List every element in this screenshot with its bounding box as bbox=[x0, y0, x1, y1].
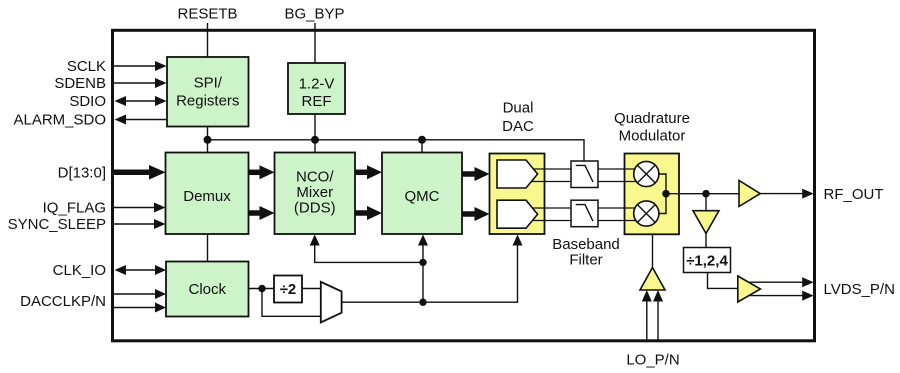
block Demux bbox=[166, 153, 249, 235]
block div2 bbox=[274, 276, 302, 303]
wire SDENB input bbox=[114, 82, 157, 84]
svg-text:DAC: DAC bbox=[502, 118, 534, 135]
block Dual DAC bbox=[490, 154, 545, 235]
svg-text:CLK_IO: CLK_IO bbox=[53, 262, 106, 279]
block Quadrature Modulator bbox=[625, 154, 680, 235]
svg-text:SDIO: SDIO bbox=[69, 93, 106, 110]
svg-text:Registers: Registers bbox=[176, 93, 239, 110]
amp divider input (down triangle) bbox=[693, 211, 719, 234]
wire DACCLKP input bbox=[114, 293, 157, 295]
wire LVDS P line bbox=[742, 281, 803, 283]
wire clock branch to NCO bbox=[315, 245, 423, 262]
svg-text:÷2: ÷2 bbox=[280, 281, 297, 298]
wire CLK_IO bidirectional bbox=[124, 269, 157, 271]
block SPI/Registers bbox=[167, 57, 249, 127]
wire NCO to QMC lower thick arrow bbox=[355, 210, 370, 216]
chip boundary bbox=[113, 30, 815, 341]
wire branch down to divider bbox=[705, 194, 707, 211]
wire RF output line bbox=[666, 193, 739, 195]
mux clock select bbox=[321, 282, 342, 323]
svg-text:Mixer: Mixer bbox=[296, 184, 333, 201]
svg-text:Baseband: Baseband bbox=[552, 236, 620, 253]
svg-text:1.2-V: 1.2-V bbox=[299, 76, 335, 93]
wire D[13:0] bus input bbox=[114, 170, 152, 176]
wire DACCLKN input bbox=[114, 307, 157, 309]
svg-text:Modulator: Modulator bbox=[619, 128, 686, 145]
DAC Q pentagon bbox=[497, 200, 538, 228]
wire Clock to div2 bbox=[249, 288, 275, 290]
svg-text:Clock: Clock bbox=[188, 281, 226, 298]
node clock output junction bbox=[258, 285, 265, 292]
svg-text:Quadrature: Quadrature bbox=[614, 110, 690, 127]
svg-text:RESETB: RESETB bbox=[177, 6, 237, 23]
wire IQ_FLAG input bbox=[114, 207, 157, 209]
svg-text:SPI/: SPI/ bbox=[194, 75, 223, 92]
wire QMC to DAC upper thick arrow bbox=[462, 171, 477, 177]
block divider 1,2,4 bbox=[684, 248, 731, 273]
wire bus to QMC top bbox=[421, 140, 423, 153]
svg-text:D[13:0]: D[13:0] bbox=[58, 165, 106, 182]
wire div2 to mux bbox=[302, 288, 321, 290]
wire Demux to Clock bbox=[207, 234, 209, 262]
svg-text:SCLK: SCLK bbox=[67, 58, 106, 75]
block NCO/Mixer (DDS) bbox=[275, 153, 356, 235]
wire amp to RF_OUT pin bbox=[760, 193, 803, 195]
wire clock up to QMC bbox=[422, 245, 424, 302]
wire ALARM_SDO output bbox=[124, 119, 167, 121]
svg-text:÷1,2,4: ÷1,2,4 bbox=[686, 253, 728, 270]
svg-text:ALARM_SDO: ALARM_SDO bbox=[13, 112, 106, 129]
svg-text:DACCLKP/N: DACCLKP/N bbox=[20, 293, 106, 310]
svg-text:Filter: Filter bbox=[569, 252, 602, 269]
node clock dist junction B bbox=[419, 299, 426, 306]
wire LO_N with up arrow bbox=[657, 301, 659, 341]
wire RESETB to SPI bbox=[207, 23, 209, 57]
node bus-SPI junction bbox=[204, 136, 212, 144]
svg-text:Dual: Dual bbox=[503, 100, 534, 117]
wire triangle to divider box bbox=[705, 234, 707, 248]
svg-text:IQ_FLAG: IQ_FLAG bbox=[43, 200, 106, 217]
svg-text:NCO/: NCO/ bbox=[296, 169, 334, 186]
svg-text:SYNC_SLEEP: SYNC_SLEEP bbox=[8, 216, 106, 233]
wire Demux to NCO upper thick arrow bbox=[249, 170, 263, 176]
wire config bus horizontal and drop to filter1 bbox=[208, 140, 585, 161]
svg-text:QMC: QMC bbox=[405, 188, 440, 205]
DAC I pentagon bbox=[497, 160, 538, 188]
node mixer combine junction bbox=[662, 190, 670, 198]
wire mux output to DAC clock bbox=[342, 245, 518, 302]
svg-text:LVDS_P/N: LVDS_P/N bbox=[824, 281, 895, 298]
wire LO_P with up arrow bbox=[646, 301, 648, 341]
wire SPI bottom to Demux top through bus bbox=[207, 127, 209, 153]
wire QMC to DAC lower thick arrow bbox=[462, 211, 477, 217]
mixer2 bbox=[634, 201, 659, 226]
wire modulator to LO amp bbox=[652, 234, 654, 267]
wire LVDS N line bbox=[742, 295, 803, 297]
filter1 baseband bbox=[571, 161, 598, 188]
amp LVDS output bbox=[738, 276, 761, 302]
amp LO input (up triangle) bbox=[640, 268, 665, 291]
svg-text:Demux: Demux bbox=[183, 188, 231, 205]
wire Demux to NCO lower thick arrow bbox=[249, 210, 263, 216]
node RF branch junction bbox=[702, 190, 710, 198]
block QMC bbox=[382, 153, 462, 235]
wire diff pair I to mixer1 bbox=[524, 168, 646, 170]
wire NCO to QMC upper thick arrow bbox=[355, 170, 370, 176]
block Clock bbox=[166, 262, 249, 317]
block 1.2-V REF bbox=[288, 63, 345, 114]
wire REF bottom to NCO top through bus bbox=[314, 114, 316, 153]
svg-text:LO_P/N: LO_P/N bbox=[626, 352, 679, 369]
wire SDIO bidirectional bbox=[124, 100, 157, 102]
node clock dist junction A bbox=[419, 259, 426, 266]
wire diff pair Q to mixer2 bbox=[524, 207, 646, 209]
svg-text:(DDS): (DDS) bbox=[294, 200, 336, 217]
filter2 baseband bbox=[571, 200, 598, 227]
amp RF output bbox=[739, 180, 760, 206]
svg-text:RF_OUT: RF_OUT bbox=[824, 186, 884, 203]
wire SCLK input bbox=[114, 65, 157, 67]
svg-text:BG_BYP: BG_BYP bbox=[284, 6, 344, 23]
wire SYNC_SLEEP input bbox=[114, 223, 157, 225]
mixer1 bbox=[634, 161, 659, 186]
svg-text:REF: REF bbox=[302, 93, 332, 110]
svg-text:SDENB: SDENB bbox=[54, 75, 106, 92]
wire divider to LVDS amp bbox=[708, 273, 738, 289]
node bus-QMC junction bbox=[418, 136, 426, 144]
node bus-REF junction bbox=[311, 136, 319, 144]
wire mixer combine bbox=[659, 174, 666, 214]
wire clock bypass to mux bbox=[262, 289, 321, 317]
wire BG_BYP to REF bbox=[314, 23, 316, 63]
